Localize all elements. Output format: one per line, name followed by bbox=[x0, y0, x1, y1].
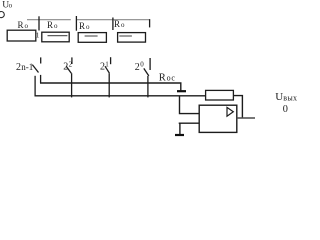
resistor R4 label Ro bbox=[114, 19, 125, 29]
resistor Roc label bbox=[159, 73, 176, 84]
switch SW2 lever bbox=[66, 66, 71, 73]
wire SW4 to bus2 bbox=[147, 76, 149, 98]
svg-text:о: о bbox=[25, 22, 29, 30]
resistor R2 label Ro bbox=[47, 20, 58, 30]
wire top rail segment 2 bbox=[76, 19, 150, 21]
svg-text:2: 2 bbox=[135, 62, 140, 73]
svg-text:вых: вых bbox=[283, 93, 297, 102]
wire output bbox=[237, 117, 255, 119]
switch SW4 fixed contact bbox=[149, 58, 151, 70]
svg-text:R: R bbox=[159, 73, 166, 84]
switch SW2 fixed contact bbox=[71, 57, 73, 64]
wire non-inverting input bbox=[179, 122, 200, 124]
resistor R1 body bbox=[7, 30, 36, 41]
node Uvyh output label bbox=[275, 91, 297, 103]
svg-text:о: о bbox=[121, 21, 125, 29]
svg-text:2: 2 bbox=[16, 62, 21, 73]
switch SW1 fixed contact bbox=[40, 57, 42, 63]
ground GND2 bar bbox=[175, 134, 184, 136]
switch SW4 label 2^0 bbox=[135, 61, 144, 73]
wire bus1 (ground bus) bbox=[40, 83, 181, 90]
terminal O (Uo input) bbox=[0, 12, 4, 18]
svg-text:R: R bbox=[47, 20, 53, 30]
op-amp U1 triangle symbol bbox=[227, 107, 233, 116]
resistor R2 body bbox=[42, 32, 69, 42]
switch SW3 fixed contact bbox=[110, 57, 112, 64]
wire top rail segment 1 bbox=[27, 19, 71, 21]
switch SW1 lever bbox=[32, 65, 38, 73]
svg-text:о: о bbox=[9, 2, 13, 10]
resistor R3 body bbox=[78, 33, 106, 43]
resistor R1 label Ro bbox=[18, 20, 29, 30]
wire tick junction 2 bbox=[75, 16, 77, 31]
wire inside R4 bbox=[119, 35, 132, 37]
wire tick junction 1 bbox=[38, 16, 40, 30]
switch SW3 lever bbox=[105, 66, 109, 73]
resistor R4 body bbox=[118, 33, 146, 43]
svg-text:1: 1 bbox=[36, 31, 40, 40]
switch SW3 label 2^1 bbox=[100, 60, 109, 72]
switch SW4 lever bbox=[144, 68, 149, 76]
svg-text:R: R bbox=[114, 19, 120, 29]
wire summing node to inverting input bbox=[180, 96, 200, 114]
wire SW3 to bus2 bbox=[108, 73, 110, 97]
wire inside R3 bbox=[85, 35, 98, 37]
wire non-inverting input ground stem bbox=[179, 123, 181, 134]
svg-text:0: 0 bbox=[283, 104, 288, 115]
switch SW2 label 2^2 bbox=[63, 60, 72, 72]
resistor R3 label Ro bbox=[79, 21, 90, 31]
wire Roc right to feedback drop bbox=[233, 96, 242, 118]
op-amp U1 body bbox=[199, 105, 237, 132]
wire tick junction 4 (rail end drop) bbox=[149, 19, 151, 27]
wire SW1 right contact to bus1 bbox=[40, 75, 42, 83]
wire SW1 left contact to bus2 bbox=[34, 76, 36, 97]
wire inside R2 bbox=[48, 35, 68, 37]
resistor Roc body bbox=[206, 90, 234, 100]
svg-text:о: о bbox=[86, 23, 90, 31]
svg-text:2: 2 bbox=[100, 62, 105, 73]
svg-text:о: о bbox=[54, 22, 58, 30]
svg-text:0: 0 bbox=[140, 61, 144, 69]
node Uo label bbox=[2, 0, 12, 10]
svg-text:R: R bbox=[18, 20, 24, 30]
svg-text:ос: ос bbox=[167, 74, 176, 83]
wire tick junction 3 bbox=[112, 18, 114, 31]
svg-text:n-1: n-1 bbox=[21, 62, 33, 72]
ground GND1 bar bbox=[177, 90, 186, 92]
svg-text:U: U bbox=[275, 91, 283, 103]
svg-text:R: R bbox=[79, 21, 85, 31]
wire bus2 (summing bus to Roc) bbox=[35, 95, 206, 97]
switch SW1 label 2n-1 bbox=[16, 62, 33, 73]
wire SW2 to bus2 bbox=[71, 73, 73, 97]
